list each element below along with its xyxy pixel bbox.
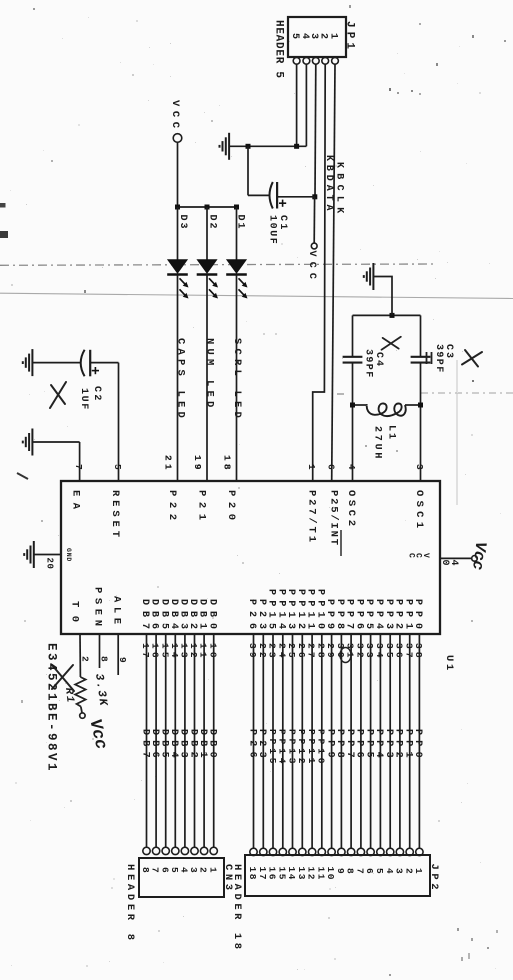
wire JP1 pin 5 to ground [296,64,298,146]
wire C1 to ground bus [247,146,249,195]
svg-text:C4: C4 [373,352,384,368]
svg-text:10: 10 [207,643,218,661]
pin 6 of CN3 [162,847,169,854]
svg-text:1: 1 [327,33,338,39]
pin 4 of CN3 [181,847,188,854]
svg-text:4: 4 [299,33,310,39]
svg-text:P21: P21 [196,490,208,520]
svg-text:D2: D2 [207,215,218,231]
capacitor C4 [343,362,363,364]
capacitor C3 [411,362,431,364]
scan artifact specks [389,88,391,91]
svg-text:T0: T0 [68,601,80,622]
wire P26 [253,634,255,848]
wire ALE stub [117,634,119,675]
mark X over C4 [382,337,401,350]
pin 2 of JP2 [406,848,413,855]
wire KBCLK [332,64,335,481]
pin 8 of CN3 [143,847,150,854]
wire diode D3 to U1 [177,275,179,482]
wire PP9 [331,634,333,848]
wire diode D1 to U1 [236,275,238,482]
node VCC [311,243,317,249]
wire DB0 [213,634,215,847]
wire DB5 [165,634,167,847]
svg-text:OSC2: OSC2 [345,490,357,526]
svg-text:DB0: DB0 [206,599,217,629]
pin 18 of JP2 [250,848,257,855]
pin 6 of JP2 [367,848,374,855]
pin 13 of JP2 [299,848,306,855]
svg-text:PP0: PP0 [412,729,423,763]
scan artifact edge marks [0,203,6,208]
svg-text:HEADER 18: HEADER 18 [231,864,243,949]
wire PP14 [282,634,284,848]
ground [220,133,230,160]
junction [418,403,423,408]
pin 1 of CN3 [210,847,217,854]
svg-text:NUM LED: NUM LED [204,338,216,412]
pin 9 of JP2 [338,848,345,855]
mark X near C3 [462,350,482,367]
pin 12 of JP2 [308,848,315,855]
wire PP12 [301,634,303,848]
svg-text:1UF: 1UF [78,388,89,411]
pin 7 of JP2 [357,848,364,855]
wire crystal ground rail [353,314,421,316]
ground [23,349,33,376]
svg-text:1: 1 [306,464,317,470]
wire PP13 [292,634,294,848]
wire GND pin to ground [34,554,61,556]
wire VCC pin 40 [440,557,471,559]
pin 15 of JP2 [279,848,286,855]
wire DB1 [203,634,205,847]
connector JP2 box [245,855,430,896]
junction [312,194,317,199]
svg-text:JP1: JP1 [344,21,356,49]
junction [294,144,299,149]
svg-text:3: 3 [308,33,319,39]
svg-text:D1: D1 [234,215,245,231]
wire DB6 [155,634,157,847]
wire DB4 [174,634,176,847]
svg-text:KBDATA: KBDATA [323,155,334,214]
pin 2 of CN3 [200,847,207,854]
svg-text:18: 18 [222,455,233,473]
svg-text:P23: P23 [256,729,267,763]
svg-text:RESET: RESET [109,490,121,537]
wire to ground [373,277,392,316]
svg-text:E34521BE-98V1: E34521BE-98V1 [45,643,59,773]
wire DB3 [184,634,186,847]
wire PP5 [370,634,372,848]
svg-text:P20: P20 [225,490,237,520]
svg-text:38: 38 [413,643,424,661]
svg-text:KBCLK: KBCLK [334,162,345,219]
pin 7 of CN3 [152,847,159,854]
diode D1 LED [227,260,246,273]
svg-text:C1: C1 [277,215,288,232]
wire ground bus [229,145,306,147]
junction [390,313,395,318]
svg-text:JP2: JP2 [428,864,440,890]
node VCC [472,556,478,562]
scan artifact faint streak [456,360,458,505]
scan artifact faint line [0,293,513,298]
svg-text:2: 2 [318,33,329,39]
svg-text:1: 1 [413,868,424,874]
svg-text:OSC1: OSC1 [413,490,425,528]
wire to VCC node [313,197,315,243]
pin 8 of JP2 [347,848,354,855]
wire PP15 [272,634,274,848]
wire JP1 pin 3 VCC [314,64,317,197]
svg-text:U1: U1 [443,655,455,673]
svg-text:PSEN: PSEN [91,587,103,626]
pin 11 of JP2 [318,848,325,855]
svg-text:7: 7 [73,464,84,470]
scan artifact dashes [420,392,513,394]
wire DB2 [194,634,196,847]
overbar on INT [340,530,342,556]
mark II [431,352,433,364]
svg-text:P25/INT: P25/INT [327,490,339,545]
pin 14 of JP2 [289,848,296,855]
svg-text:21: 21 [163,455,174,473]
scan artifact slash [17,473,28,479]
scan artifact dash-dot line [0,264,433,265]
pin 3 of CN3 [191,847,198,854]
wire R1 to Vcc node [81,707,82,713]
svg-text:39PF: 39PF [362,349,373,379]
ground [23,429,33,456]
junction [246,144,251,149]
wire PP2 [399,634,401,848]
wire PP10 [321,634,323,848]
svg-text:L1: L1 [386,425,397,441]
wire rail to diode D3 [177,207,179,260]
wire JP1 pin 4 to ground [305,64,307,146]
wire C3 to rail [420,315,422,356]
svg-text:3.3K: 3.3K [92,673,110,708]
diode D3 LED [168,260,187,273]
IC U1 body [61,481,440,634]
svg-text:P27/T1: P27/T1 [305,490,317,542]
connector JP1 box [288,17,346,57]
svg-text:19: 19 [192,455,203,473]
mark X over C2 [50,382,66,408]
svg-text:VCC: VCC [169,100,181,133]
pin 3 of JP2 [396,848,403,855]
node Vcc [80,713,85,718]
svg-text:6: 6 [325,464,336,470]
wire EA to ground [79,442,81,481]
svg-text:CAPS LED: CAPS LED [175,338,187,422]
mark X over R1 [52,665,74,691]
pin 1 of JP2 [416,848,423,855]
svg-text:1: 1 [207,867,218,873]
junction [350,403,355,408]
svg-text:D3: D3 [177,215,188,231]
svg-text:HEADER 8: HEADER 8 [124,864,136,940]
svg-text:DB0: DB0 [207,729,218,763]
pin 5 of JP2 [377,848,384,855]
node VCC [173,134,182,143]
wire diode D2 to U1 [206,275,208,482]
svg-text:PP0: PP0 [412,599,423,629]
svg-text:C2: C2 [91,386,102,403]
wire PSEN stub [99,634,101,668]
wire PP8 [340,634,342,848]
wire RESET [118,363,120,481]
svg-text:0: 0 [439,560,450,566]
capacitor C1 [278,196,315,198]
svg-text:Vcc: Vcc [468,540,489,571]
junction [234,205,239,210]
svg-text:VCC: VCC [306,251,317,285]
wire OSC2 to C4 [352,363,354,481]
wire KBDATA [313,64,326,481]
wire T0 to R1 [79,634,81,677]
diode D2 LED [197,260,216,273]
ground [364,263,374,290]
wire rail to diode D2 [206,207,208,260]
wire PP3 [389,634,391,848]
svg-text:EA: EA [70,490,82,510]
wire DB7 [146,634,148,847]
svg-text:P22: P22 [166,490,178,520]
wire VCC to LED rail [177,142,179,207]
wire PP0 [418,634,420,848]
wire PP11 [311,634,313,848]
ground [24,541,34,568]
connector CN3 box [139,858,224,897]
svg-text:20: 20 [45,558,55,570]
inductor L1 [405,404,421,406]
pin 5 of CN3 [172,847,179,854]
svg-text:5: 5 [112,464,123,470]
svg-text:Vcc: Vcc [84,717,109,751]
svg-text:ALE: ALE [111,596,123,624]
wire rail to diode D1 [236,207,238,260]
svg-text:5: 5 [289,33,300,39]
pin 16 of JP2 [269,848,276,855]
pin 10 of JP2 [328,848,335,855]
wire OSC1 to C3 [420,363,422,481]
pin 4 of JP2 [387,848,394,855]
wire PP1 [409,634,411,848]
svg-text:10UF: 10UF [267,215,278,245]
svg-text:39PF: 39PF [433,344,444,374]
svg-text:27UH: 27UH [372,426,383,461]
annotation circle on pin 30 [340,648,351,663]
wire C4 to rail [352,315,354,356]
svg-text:GND: GND [65,548,72,562]
wire PP4 [379,634,381,848]
wire PP7 [350,634,352,848]
wire PP6 [360,634,362,848]
capacitor C2 polarized [81,350,85,377]
svg-text:3: 3 [414,464,425,470]
wire P23 [262,634,264,848]
svg-text:HEADER 5: HEADER 5 [273,20,285,78]
svg-text:C3: C3 [443,344,454,360]
pin 17 of JP2 [260,848,267,855]
svg-text:C: C [407,553,416,558]
wire LED rail [178,206,237,208]
junction [205,205,210,210]
svg-text:4: 4 [346,464,357,470]
junction [175,205,180,210]
resistor R1 zigzag [75,677,85,707]
wire ground to C2 [32,362,80,364]
